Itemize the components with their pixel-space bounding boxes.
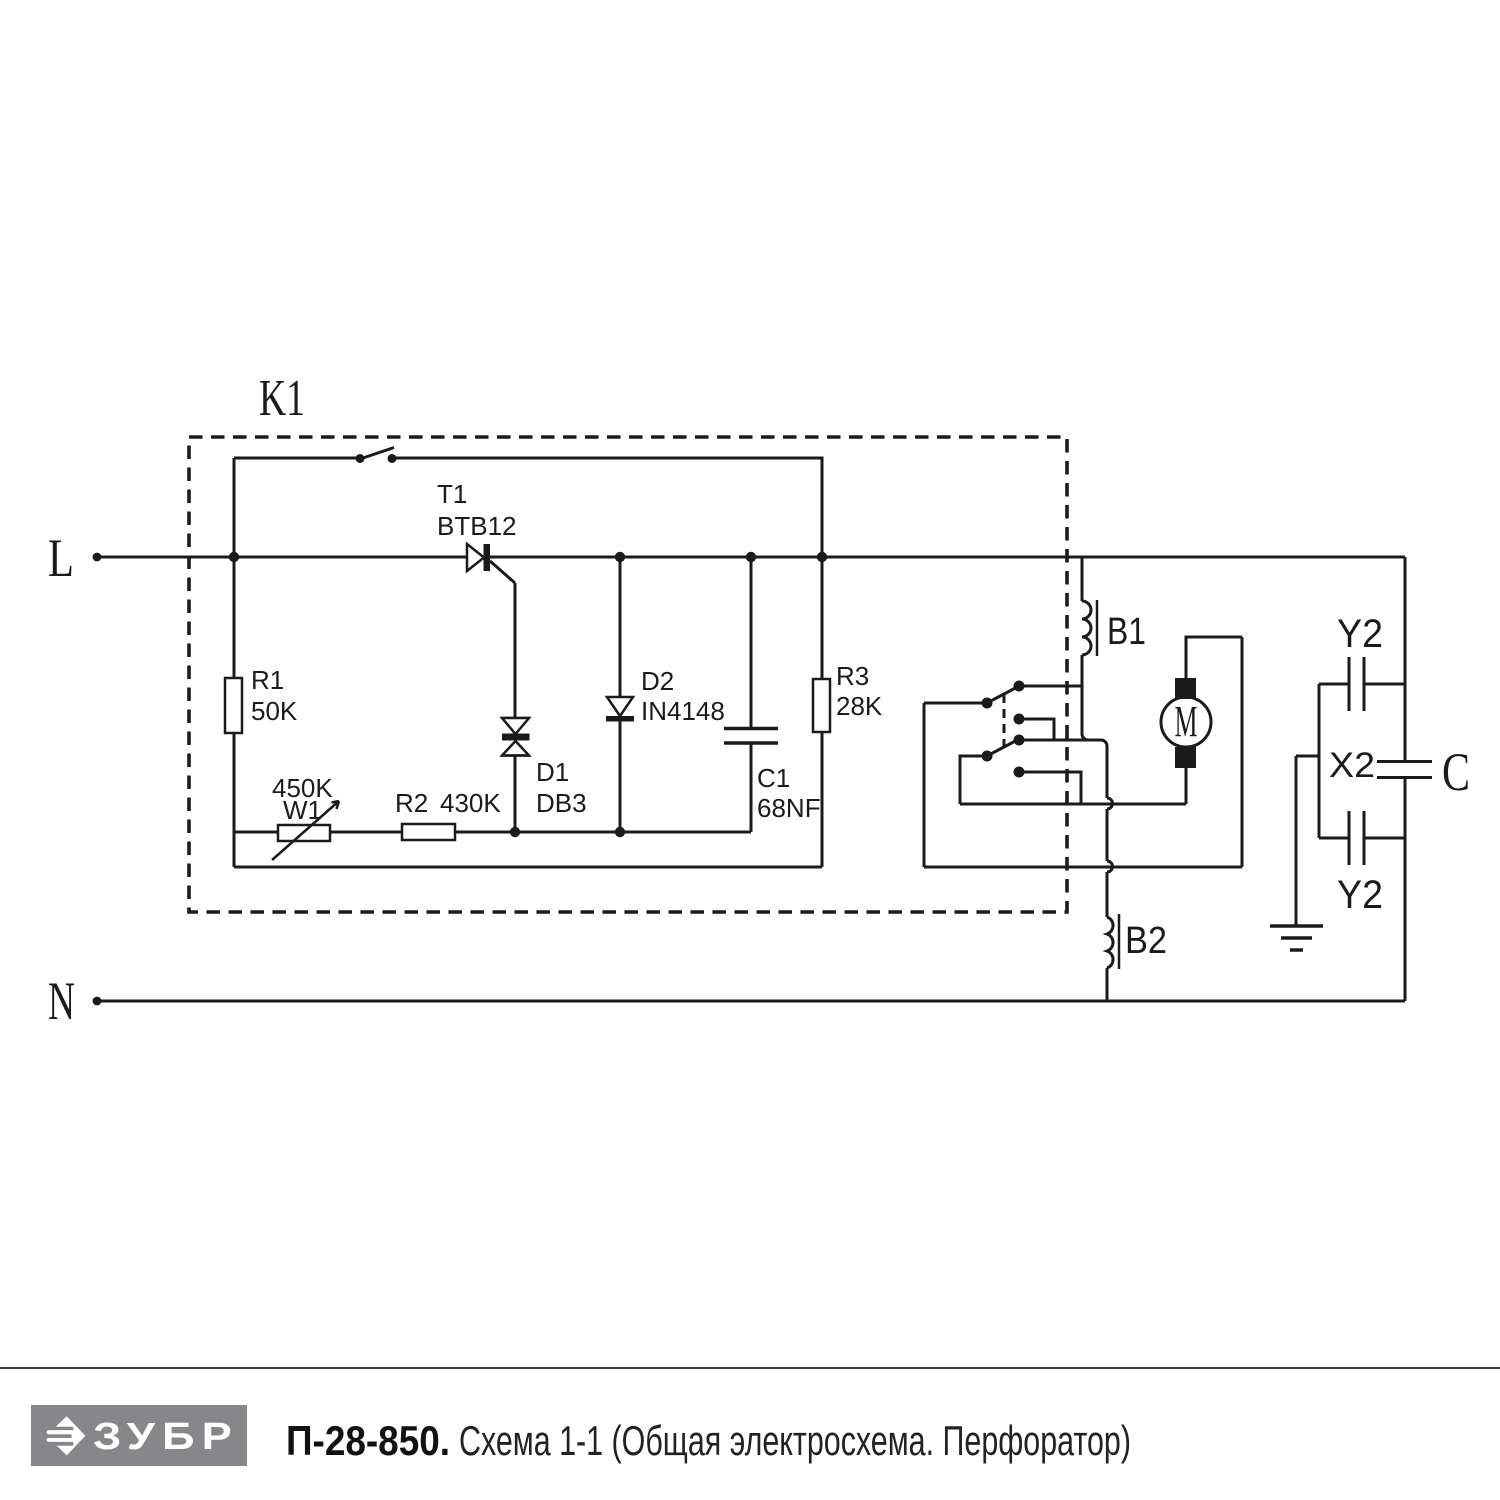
svg-text:R1: R1	[251, 665, 284, 695]
resistor R1 body	[225, 678, 242, 733]
wire right main vertical lower	[1404, 778, 1407, 1001]
switch S1 lever	[360, 448, 394, 460]
motor M circle	[1161, 697, 1211, 747]
wire bottom rail y867 right	[924, 866, 1242, 869]
wire motor bottom lead	[1185, 767, 1188, 804]
switch S1 left contact dot	[356, 454, 365, 463]
ground symbol	[1270, 924, 1323, 928]
junction dot left vertical at L	[229, 552, 239, 562]
junction dot D2 top	[615, 552, 625, 562]
svg-text:68NF: 68NF	[757, 793, 821, 823]
inductor B1 core bar	[1096, 600, 1099, 656]
wire gate vertical lower	[514, 756, 517, 833]
wire motor top lead	[1186, 637, 1242, 678]
capacitor Y2 top right wire	[1364, 683, 1405, 686]
switch S2 lever upper	[987, 685, 1021, 703]
wire C1 branch lower	[750, 743, 753, 832]
svg-text:C1: C1	[757, 763, 790, 793]
wire right main vertical upper	[1404, 557, 1407, 761]
switch S2 pivot dot E	[982, 751, 993, 762]
inductor B1 lead upper	[1081, 557, 1084, 601]
svg-text:N: N	[48, 971, 75, 1031]
switch S2 pivot dot B	[982, 698, 993, 709]
wire gate vertical upper	[514, 583, 517, 718]
wire B1 lead lower with elbow	[1082, 655, 1088, 740]
svg-text:R2: R2	[395, 788, 428, 818]
resistor R3 body	[813, 679, 830, 732]
switch S2 contact dot D	[1014, 735, 1025, 746]
svg-text:W1: W1	[283, 795, 322, 825]
junction dot D1 bottom	[510, 827, 520, 837]
svg-text:Y2: Y2	[1337, 873, 1383, 917]
svg-text:K1: K1	[259, 370, 305, 427]
capacitor Y2 bottom left wire	[1319, 837, 1349, 840]
junction dot R3 top	[817, 552, 827, 562]
inductor B2 core bar	[1118, 914, 1121, 969]
wire pivot E jog	[960, 756, 987, 804]
node L terminal dot	[93, 553, 102, 562]
svg-text:28K: 28K	[836, 691, 883, 721]
wire switch left vertical	[923, 703, 926, 867]
capacitor Y2 top plates	[1348, 657, 1351, 711]
svg-text:B2: B2	[1125, 920, 1167, 962]
svg-text:M: M	[1175, 697, 1198, 746]
potentiometer W1 body	[278, 825, 330, 841]
svg-text:D2: D2	[641, 666, 674, 696]
svg-text:X2: X2	[1329, 746, 1375, 785]
wire contact A to B1	[1019, 685, 1082, 688]
K1 module dashed box	[189, 437, 1067, 912]
svg-text:ЗУБР: ЗУБР	[93, 1416, 239, 1458]
wire ground stem horizontal	[1296, 755, 1319, 758]
capacitor C1 plates	[724, 727, 778, 731]
inductor B1 coil	[1082, 601, 1091, 655]
wire top bypass right	[392, 458, 822, 557]
node N terminal dot	[93, 997, 102, 1006]
triac T1 triangle	[467, 544, 484, 571]
wire L line right segment	[489, 556, 1405, 559]
capacitor Y2 bottom right wire	[1364, 837, 1405, 840]
wire motor bottom rail y804	[960, 803, 1186, 806]
svg-text:50K: 50K	[251, 696, 298, 726]
wire contact F jog	[1019, 772, 1081, 804]
wire B2 lead lower	[1106, 968, 1109, 1001]
wire B2 branch with hops	[1106, 746, 1109, 798]
switch S2 mechanical linkage (dashed)	[1003, 694, 1006, 750]
svg-text:DB3: DB3	[536, 788, 587, 818]
svg-text:B1: B1	[1107, 611, 1146, 653]
junction dot D2 bottom	[615, 827, 625, 837]
wire D2 branch vertical	[619, 557, 622, 832]
wire mid rail y832	[234, 831, 751, 834]
motor brush bottom	[1175, 747, 1196, 768]
wire common rail y740	[1019, 740, 1107, 746]
resistor R2 body	[402, 824, 455, 840]
switch S2 lever lower	[987, 738, 1021, 756]
ZUBR logo diamond emblem	[40, 1416, 85, 1455]
wire C1 branch upper	[750, 557, 753, 728]
svg-text:Схема 1-1 (Общая электросхема.: Схема 1-1 (Общая электросхема. Перфорато…	[459, 1417, 1131, 1464]
triac T1 bar	[484, 544, 491, 571]
capacitor X2 plates	[1377, 760, 1432, 763]
wire filter mid vertical	[1318, 684, 1321, 838]
wire contact C jog	[1019, 719, 1054, 740]
wire R3 branch vertical	[821, 458, 824, 867]
svg-text:BTB12: BTB12	[437, 511, 517, 541]
wire pivot B to left vertical	[924, 702, 987, 705]
junction dot C1 top	[746, 552, 756, 562]
diac D1 symbol	[502, 717, 529, 720]
triac T1 gate lead	[490, 561, 515, 583]
wire ground stem vertical	[1295, 756, 1298, 926]
wire top bypass left	[234, 457, 360, 460]
switch S2 contact dot A	[1014, 681, 1025, 692]
wire left vertical branch	[233, 458, 236, 867]
capacitor Y2 top left wire	[1319, 683, 1349, 686]
switch S2 contact dot C	[1014, 714, 1025, 725]
svg-text:430K: 430K	[440, 788, 501, 818]
svg-text:R3: R3	[836, 661, 869, 691]
diode D2 symbol	[607, 697, 633, 716]
switch S1 right contact dot	[388, 454, 397, 463]
motor brush top	[1175, 678, 1196, 699]
wire motor loop right vertical	[1241, 637, 1244, 867]
switch S2 contact dot F	[1014, 767, 1025, 778]
svg-text:D1: D1	[536, 757, 569, 787]
potentiometer W1 arrow	[272, 801, 339, 860]
svg-text:Y2: Y2	[1337, 612, 1383, 656]
svg-text:IN4148: IN4148	[641, 696, 725, 726]
wire L line left segment	[97, 556, 467, 559]
ZUBR logo gray box	[31, 1405, 247, 1466]
svg-text:C: C	[1442, 742, 1470, 802]
svg-text:L: L	[48, 528, 74, 588]
svg-text:П-28-850.: П-28-850.	[286, 1417, 450, 1464]
svg-text:T1: T1	[437, 479, 467, 509]
wire N line	[97, 1000, 1405, 1003]
footer separator line	[0, 1367, 1500, 1369]
capacitor Y2 bottom plates	[1348, 811, 1351, 865]
wire bottom rail y867	[234, 866, 822, 869]
inductor B2 coil	[1107, 917, 1113, 968]
